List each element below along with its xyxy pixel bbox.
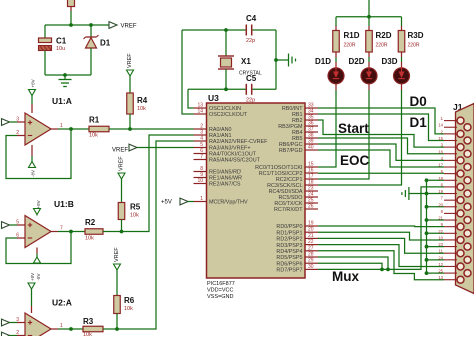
svg-text:VDD=VCC: VDD=VCC: [207, 288, 233, 294]
svg-text:R4: R4: [137, 96, 148, 105]
svg-text:21: 21: [438, 216, 443, 221]
svg-text:10u: 10u: [56, 46, 65, 52]
svg-text:-8V: -8V: [30, 170, 35, 177]
svg-text:R3D: R3D: [408, 31, 424, 40]
svg-text:C1: C1: [56, 37, 67, 46]
svg-text:18: 18: [438, 176, 443, 181]
svg-text:C4: C4: [246, 14, 257, 23]
svg-text:27: 27: [308, 245, 314, 251]
svg-text:1: 1: [200, 196, 203, 202]
svg-text:6: 6: [16, 233, 19, 239]
svg-text:22: 22: [308, 239, 314, 245]
svg-text:R6: R6: [124, 296, 135, 305]
svg-text:17: 17: [438, 163, 443, 168]
svg-text:RD7/PSP7: RD7/PSP7: [276, 268, 302, 274]
svg-text:4: 4: [200, 136, 203, 142]
svg-text:23: 23: [438, 242, 443, 247]
svg-text:10: 10: [438, 235, 443, 240]
svg-text:21: 21: [308, 233, 314, 239]
svg-text:10k: 10k: [85, 236, 94, 242]
svg-text:Start: Start: [338, 121, 369, 136]
svg-text:10: 10: [197, 178, 203, 184]
svg-text:3: 3: [16, 317, 19, 323]
svg-text:U2:A: U2:A: [52, 298, 72, 308]
svg-text:VREF: VREF: [119, 156, 125, 171]
svg-text:CRYSTAL: CRYSTAL: [239, 71, 262, 77]
svg-text:30: 30: [308, 264, 314, 270]
svg-text:-8V: -8V: [36, 273, 41, 280]
svg-text:29: 29: [308, 258, 314, 264]
svg-text:D2D: D2D: [349, 57, 365, 66]
svg-text:R5: R5: [130, 203, 141, 212]
svg-text:19: 19: [308, 221, 314, 227]
svg-text:22p: 22p: [246, 38, 255, 44]
svg-text:OSC2/CLKOUT: OSC2/CLKOUT: [209, 112, 248, 118]
svg-text:D1: D1: [410, 115, 428, 130]
svg-text:7: 7: [200, 154, 203, 160]
svg-text:1: 1: [60, 323, 63, 329]
svg-text:RB7/PGD: RB7/PGD: [279, 148, 303, 154]
svg-text:D0: D0: [410, 94, 427, 109]
svg-text:220R: 220R: [344, 43, 356, 49]
svg-text:13: 13: [438, 275, 443, 280]
svg-text:16: 16: [438, 149, 443, 154]
svg-text:U3: U3: [208, 93, 219, 103]
svg-text:14: 14: [438, 123, 443, 128]
svg-text:R3: R3: [83, 317, 94, 326]
svg-text:R1D: R1D: [344, 31, 360, 40]
svg-text:19: 19: [438, 189, 443, 194]
svg-text:PIC16F877: PIC16F877: [207, 281, 235, 287]
svg-text:220R: 220R: [408, 43, 420, 49]
svg-text:D1D: D1D: [315, 57, 331, 66]
svg-text:RD4/PSP4: RD4/PSP4: [276, 249, 302, 255]
svg-text:D1: D1: [100, 39, 111, 48]
svg-text:VREF: VREF: [114, 247, 120, 262]
svg-text:10k: 10k: [89, 133, 98, 139]
svg-text:D3D: D3D: [382, 57, 398, 66]
svg-text:U1:B: U1:B: [54, 199, 74, 209]
svg-text:11: 11: [439, 249, 444, 254]
svg-text:+8V: +8V: [31, 79, 36, 87]
svg-text:10k: 10k: [137, 106, 146, 112]
svg-text:RA5/AN4/SS/C2OUT: RA5/AN4/SS/C2OUT: [209, 158, 261, 164]
svg-text:R2D: R2D: [376, 31, 392, 40]
svg-text:MCLR/Vpp/THV: MCLR/Vpp/THV: [209, 200, 248, 206]
svg-text:26: 26: [308, 204, 314, 210]
svg-text:+5V: +5V: [161, 200, 172, 206]
svg-text:R2: R2: [85, 218, 96, 227]
svg-text:Mux: Mux: [332, 269, 359, 284]
svg-text:RD1/PSP1: RD1/PSP1: [276, 230, 302, 236]
svg-text:VSS=GND: VSS=GND: [207, 294, 233, 300]
svg-text:14: 14: [197, 109, 203, 115]
svg-text:40: 40: [308, 145, 314, 151]
svg-text:EOC: EOC: [340, 153, 370, 168]
svg-text:+8V: +8V: [36, 200, 41, 208]
svg-text:RD5/PSP5: RD5/PSP5: [276, 255, 302, 261]
svg-text:U1:A: U1:A: [52, 96, 72, 106]
svg-text:20: 20: [308, 227, 314, 233]
svg-text:VREF: VREF: [121, 24, 137, 30]
svg-text:3: 3: [16, 117, 19, 123]
svg-text:10k: 10k: [130, 213, 139, 219]
svg-text:5: 5: [16, 220, 19, 226]
svg-text:VREF: VREF: [127, 53, 133, 68]
svg-text:2: 2: [16, 130, 19, 136]
svg-text:25: 25: [438, 269, 443, 274]
svg-text:28: 28: [308, 252, 314, 258]
svg-text:1: 1: [60, 123, 63, 129]
svg-text:RD3/PSP3: RD3/PSP3: [276, 243, 302, 249]
svg-text:12: 12: [438, 262, 443, 267]
svg-text:2: 2: [16, 330, 19, 336]
svg-text:RD2/PSP2: RD2/PSP2: [276, 237, 302, 243]
svg-text:RD6/PSP6: RD6/PSP6: [276, 261, 302, 267]
svg-text:10k: 10k: [83, 332, 92, 336]
svg-text:RE2/AN7/CS: RE2/AN7/CS: [209, 182, 241, 188]
svg-text:20: 20: [438, 202, 443, 207]
svg-text:220R: 220R: [376, 43, 388, 49]
svg-text:7: 7: [60, 226, 63, 232]
svg-text:+8V: +8V: [30, 273, 35, 281]
svg-text:15: 15: [438, 136, 443, 141]
svg-text:VREF: VREF: [112, 148, 128, 154]
svg-text:RA2/AN2/VREF-CVREF: RA2/AN2/VREF-CVREF: [209, 139, 268, 145]
svg-text:10k: 10k: [124, 306, 133, 312]
svg-text:RD0/PSP0: RD0/PSP0: [276, 224, 302, 230]
svg-text:X1: X1: [241, 57, 251, 66]
svg-text:R1: R1: [89, 116, 100, 125]
svg-text:24: 24: [438, 255, 443, 260]
svg-text:RC7/RX/DT: RC7/RX/DT: [274, 207, 303, 213]
svg-text:22: 22: [438, 229, 443, 234]
